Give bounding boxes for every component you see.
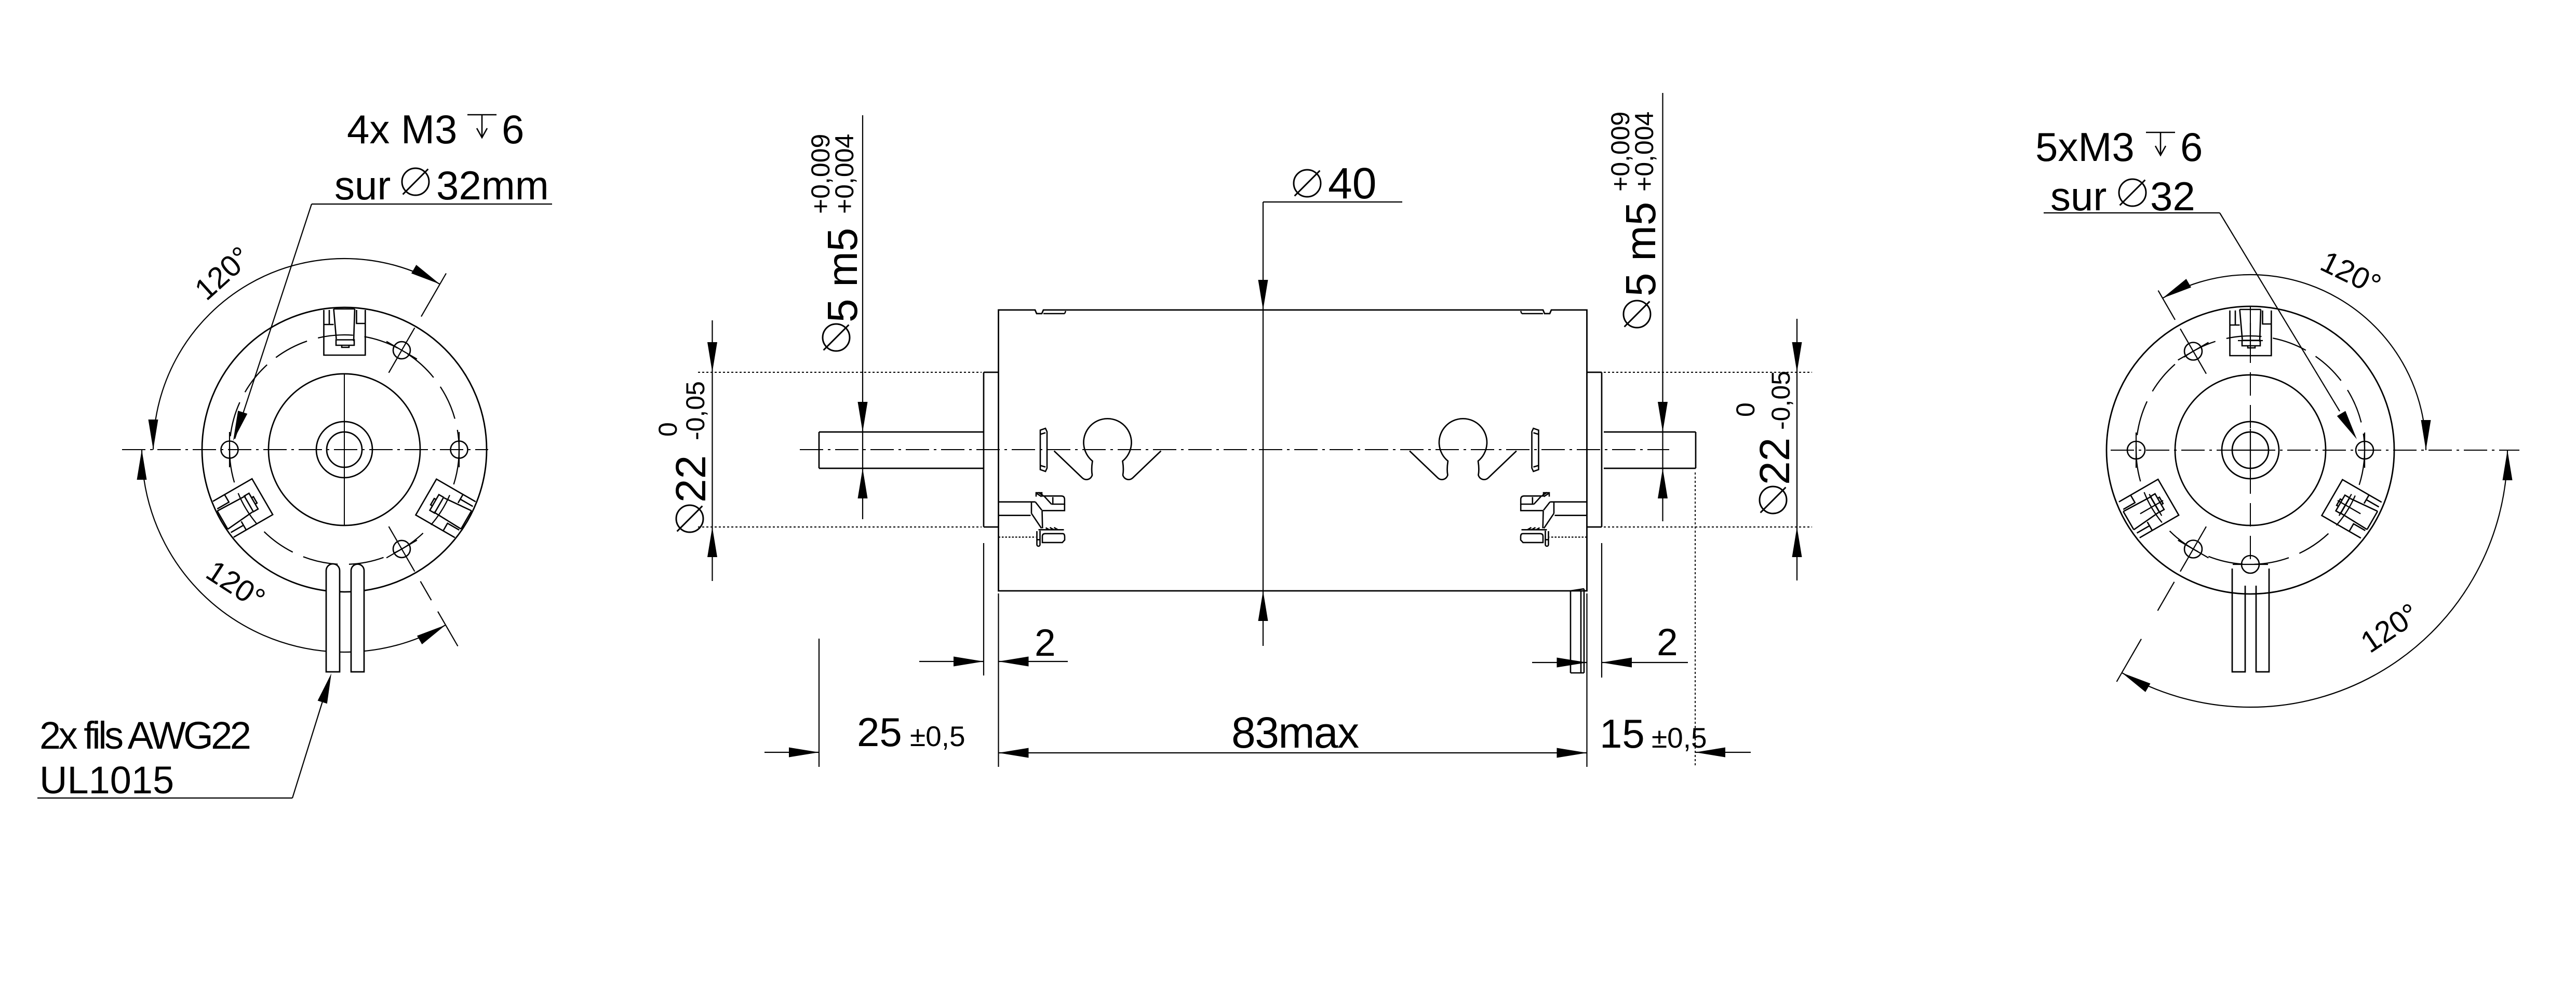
svg-text:UL1015: UL1015 <box>39 759 174 802</box>
dim label: dia 40 <box>1263 159 1402 208</box>
front view: mounting tab at 330 deg <box>415 479 476 538</box>
svg-text:+0,004: +0,004 <box>830 134 859 214</box>
front view: leader line to M3 hole <box>233 204 552 441</box>
side view: brush spring (left) <box>1054 418 1161 479</box>
front view: M3 screw hole at 0 deg (right) <box>451 432 468 467</box>
dim label: dia 22 0/-0.05 (right, rotated) <box>1731 371 1799 513</box>
side view: brush holder bracket (left) <box>999 493 1065 547</box>
rear view: mounting tab at 210 deg <box>2118 479 2179 538</box>
svg-text:25: 25 <box>857 709 902 755</box>
rear view: M3 screw hole at 0 deg (right) <box>2356 432 2373 468</box>
dim: 15 +-0,5 with dotted extension line <box>1600 472 1751 767</box>
dim: dia22 right extension lines (dotted) <box>1604 372 1812 527</box>
dim: 2 (left) <box>919 543 1068 675</box>
svg-text:-0,05: -0,05 <box>1766 371 1795 430</box>
front view: 120 deg dimension arc (upper) <box>149 259 440 450</box>
svg-text:40: 40 <box>1328 159 1376 208</box>
svg-text:5 m5: 5 m5 <box>1617 202 1665 296</box>
dim label: dia 22 0/-0.05 (left, rotated) <box>653 381 715 532</box>
dim: dia5 right dimension line with arrows <box>1658 93 1668 521</box>
svg-text:0: 0 <box>653 422 682 437</box>
rear view label: 120 deg (lower right) <box>2355 597 2425 659</box>
front view: vertical centerline <box>344 374 345 526</box>
dim: dia22 left extension lines (dotted) <box>698 372 982 527</box>
svg-text:±0,5: ±0,5 <box>910 720 965 752</box>
front view: mounting tab at 90 deg <box>324 309 366 355</box>
rear view: M3 screw hole at 270 deg (bottom) <box>2233 556 2268 573</box>
rear view label: sur dia 32 <box>2050 173 2195 219</box>
svg-text:32: 32 <box>2150 173 2195 219</box>
rear view: shaft boss circle <box>2222 422 2279 479</box>
side view: small tab (right) <box>1532 428 1539 471</box>
rear view: radial tick at 120 deg arc end <box>2158 291 2176 320</box>
svg-text:sur: sur <box>334 163 391 208</box>
rear view: mounting tab at 330 deg <box>2322 480 2382 539</box>
front view label: 120 deg (lower left) <box>200 554 271 616</box>
rear view: radial tick at 240 deg (inner) <box>2158 582 2175 611</box>
side view: crimp tab detail on top edge (right) <box>1521 311 1543 314</box>
rear view: vertical centerline (dashed) <box>2250 307 2251 569</box>
side view: rear end-cap rim (right flange) <box>1587 372 1602 527</box>
rear view: radial tick at 240 deg (outer, crossing arc) <box>2117 639 2142 682</box>
dim label: dia 5 m5 +0,009/+0,004 (right, rotated) <box>1606 112 1665 328</box>
svg-text:2: 2 <box>1035 622 1056 664</box>
svg-text:5 m5: 5 m5 <box>819 228 866 322</box>
rear view: mounting tab at 90 deg <box>2230 309 2272 356</box>
svg-text:15: 15 <box>1600 711 1645 756</box>
front view label: 120 deg (upper left) <box>189 240 258 307</box>
rear view: motor outer housing circle <box>2107 306 2394 594</box>
front view: M3 screw hole at 180 deg (left) <box>221 432 238 467</box>
side view: front shaft (left) <box>819 432 984 468</box>
side view: rear shaft (right) <box>1604 432 1696 468</box>
rear view: M3 screw hole at 180 deg (left) <box>2127 432 2145 468</box>
dim: dia5 left dimension line with arrows <box>858 115 868 519</box>
rear view label: 120 deg (upper right) <box>2315 245 2386 302</box>
front view: bolt circle (dia 32) dashed <box>230 335 459 564</box>
rear view: shaft end circle <box>2232 432 2269 468</box>
front view: 120 deg dimension arc (lower) <box>137 450 446 652</box>
svg-text:2x fils AWG22: 2x fils AWG22 <box>39 714 250 757</box>
front view label: 4x M3 depth 6 <box>347 106 524 152</box>
front view: M3 screw hole at 300 deg (lower-right) <box>386 526 417 572</box>
svg-text:±0,5: ±0,5 <box>1652 722 1707 754</box>
rear view: leader line to M3 hole <box>2044 213 2357 439</box>
front view: shaft bore circle <box>327 432 362 467</box>
svg-text:5xM3: 5xM3 <box>2035 124 2135 170</box>
dim: 2 (right) <box>1532 543 1688 678</box>
side view: horizontal centerline <box>800 449 1669 450</box>
side view: terminal lug below body (right) <box>1571 589 1584 673</box>
rear view label: 5xM3 depth 6 <box>2035 124 2203 170</box>
side view: small tab (left) <box>1040 428 1047 471</box>
dim: 83max with inside arrows <box>999 593 1587 767</box>
svg-text:22: 22 <box>667 455 715 503</box>
rear view: M3 screw hole at 240 deg (lower-left) <box>2178 526 2209 572</box>
rear view: rear face circle <box>2175 375 2326 525</box>
side view: front end-cap rim (left flange) <box>984 372 999 527</box>
rear view: M3 screw hole at 120 deg (upper-left) <box>2178 329 2209 374</box>
rear view: horizontal centerline (dotted) <box>2111 450 2519 451</box>
side view: brush spring (right) <box>1410 418 1517 479</box>
dim: 25 +-0,5 with extension line <box>764 639 965 767</box>
front view: leader line to wires <box>37 673 331 798</box>
front view: front face circle <box>269 374 420 525</box>
front view label: sur dia 32mm <box>334 163 549 208</box>
front view: radial tick at 60 deg arc end <box>421 274 446 317</box>
dim: dia22 right dimension line with arrows <box>1792 319 1802 580</box>
front view: mounting tab at 210 deg <box>212 479 273 538</box>
svg-text:4x M3: 4x M3 <box>347 106 457 152</box>
side view: motor body outline <box>999 310 1587 591</box>
front view: horizontal centerline <box>122 449 488 450</box>
dim: dia40 vertical line with arrows <box>1258 202 1268 646</box>
front view: shaft boss circle <box>316 422 372 478</box>
svg-text:sur: sur <box>2050 173 2107 219</box>
rear view: 120 deg dimension arc (lower) <box>2122 450 2513 707</box>
dim label: dia 5 m5 +0,009/+0,004 (left, rotated) <box>806 134 866 351</box>
svg-text:32mm: 32mm <box>436 163 549 208</box>
side view: crimp tab detail on top edge (left) <box>1043 311 1066 314</box>
svg-text:6: 6 <box>2180 124 2203 170</box>
svg-text:22: 22 <box>1751 438 1799 485</box>
front view: radial tick at 300 deg arc end (outer) <box>438 612 458 646</box>
rear view: lead wires (2x) <box>2232 569 2269 672</box>
rear view: center cross marks <box>2232 429 2269 471</box>
svg-text:83max: 83max <box>1231 708 1359 757</box>
svg-text:0: 0 <box>1731 402 1760 417</box>
rear view: 120 deg dimension arc (upper) <box>2163 275 2431 450</box>
front view: lead wires (2x) <box>326 564 364 672</box>
svg-text:2: 2 <box>1657 621 1678 664</box>
front view label: 2x fils AWG22 UL1015 <box>39 714 250 802</box>
front view: radial tick at 300 deg arc end (inner) <box>421 582 432 600</box>
rear view: bolt circle (dia 32) dashed <box>2136 336 2365 564</box>
svg-text:+0,004: +0,004 <box>1630 112 1659 192</box>
dim: dia22 left dimension line with arrows <box>707 320 717 581</box>
front view: motor outer housing circle <box>202 307 487 592</box>
svg-text:-0,05: -0,05 <box>681 381 710 440</box>
svg-text:6: 6 <box>502 106 524 152</box>
side view: brush holder bracket (right) <box>1521 493 1587 547</box>
front view: M3 screw hole at 60 deg (upper-right) <box>386 328 417 373</box>
